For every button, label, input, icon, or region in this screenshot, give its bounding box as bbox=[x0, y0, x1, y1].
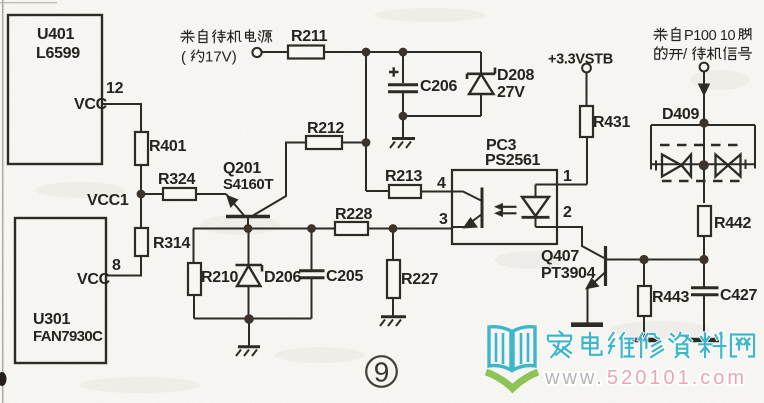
svg-text:PS2561: PS2561 bbox=[485, 152, 541, 169]
svg-text:www.: www. bbox=[544, 367, 605, 389]
svg-text:U301: U301 bbox=[33, 311, 70, 328]
svg-text:VCC: VCC bbox=[77, 271, 111, 288]
svg-text:R212: R212 bbox=[307, 120, 344, 137]
svg-text:Q407: Q407 bbox=[541, 248, 579, 265]
svg-text:VCC: VCC bbox=[74, 96, 108, 113]
svg-text:27V: 27V bbox=[497, 84, 525, 101]
svg-text:VCC1: VCC1 bbox=[87, 192, 129, 209]
svg-text:17V): 17V) bbox=[205, 49, 237, 66]
svg-text:L6599: L6599 bbox=[36, 45, 80, 62]
svg-text:R228: R228 bbox=[335, 206, 372, 223]
svg-text:S4160T: S4160T bbox=[223, 176, 273, 193]
svg-text:12: 12 bbox=[106, 80, 124, 97]
svg-text:C206: C206 bbox=[420, 78, 457, 95]
svg-text:R431: R431 bbox=[593, 114, 630, 131]
svg-text:R401: R401 bbox=[149, 138, 186, 155]
svg-text:R227: R227 bbox=[401, 271, 438, 288]
svg-text:D409: D409 bbox=[662, 106, 699, 123]
svg-text:1: 1 bbox=[563, 168, 572, 185]
svg-text:4: 4 bbox=[437, 175, 446, 192]
svg-text:520101.com: 520101.com bbox=[607, 367, 747, 389]
svg-text:C205: C205 bbox=[326, 268, 363, 285]
svg-text:R324: R324 bbox=[158, 171, 195, 188]
svg-text:2: 2 bbox=[563, 204, 572, 221]
svg-text:R211: R211 bbox=[291, 28, 328, 45]
svg-text:R442: R442 bbox=[714, 215, 751, 232]
svg-text:D208: D208 bbox=[497, 67, 534, 84]
svg-text:Q201: Q201 bbox=[223, 160, 261, 177]
svg-text:R213: R213 bbox=[385, 168, 422, 185]
svg-text:P100 10: P100 10 bbox=[684, 28, 736, 44]
svg-text:R443: R443 bbox=[652, 289, 689, 306]
svg-text:FAN7930C: FAN7930C bbox=[33, 328, 103, 345]
svg-text:R210: R210 bbox=[201, 269, 238, 286]
svg-text:PT3904: PT3904 bbox=[541, 265, 596, 282]
svg-text:R314: R314 bbox=[153, 235, 190, 252]
svg-text:8: 8 bbox=[112, 257, 121, 274]
svg-text:+3.3VSTB: +3.3VSTB bbox=[548, 52, 613, 68]
svg-text:(: ( bbox=[181, 49, 186, 66]
svg-text:U401: U401 bbox=[37, 26, 74, 43]
svg-text:C427: C427 bbox=[720, 287, 757, 304]
svg-text:3: 3 bbox=[439, 211, 448, 228]
svg-text:9: 9 bbox=[374, 357, 390, 388]
svg-text:D206: D206 bbox=[264, 269, 301, 286]
